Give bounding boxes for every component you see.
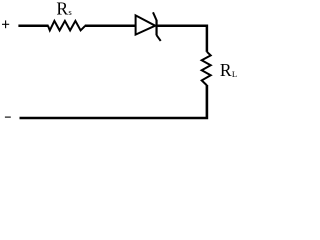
svg-text:R: R bbox=[56, 0, 68, 18]
svg-text:L: L bbox=[232, 69, 237, 79]
svg-text:s: s bbox=[68, 7, 72, 17]
svg-text:R: R bbox=[220, 60, 232, 80]
